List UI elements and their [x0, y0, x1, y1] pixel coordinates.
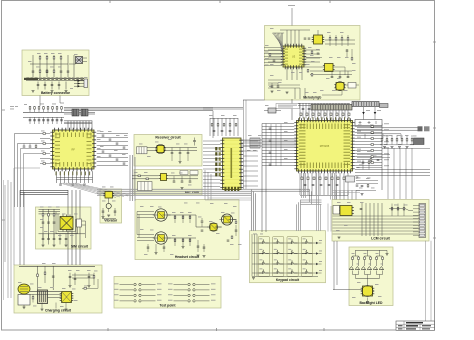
- svg-text:MT6205: MT6205: [320, 144, 330, 148]
- svg-text:Test point: Test point: [160, 303, 177, 307]
- svg-text:Receiver circuit: Receiver circuit: [155, 136, 181, 140]
- svg-text:Headset circuit: Headset circuit: [175, 255, 200, 259]
- svg-text:Charging circuit: Charging circuit: [45, 308, 72, 312]
- svg-text:Keypad circuit: Keypad circuit: [276, 278, 300, 282]
- svg-text:LCM circuit: LCM circuit: [371, 236, 390, 240]
- svg-text:RF: RF: [72, 148, 76, 152]
- svg-text:Backlight LED: Backlight LED: [360, 301, 384, 305]
- svg-text:U3: U3: [292, 55, 296, 59]
- svg-text:Melody/rgb: Melody/rgb: [303, 95, 321, 99]
